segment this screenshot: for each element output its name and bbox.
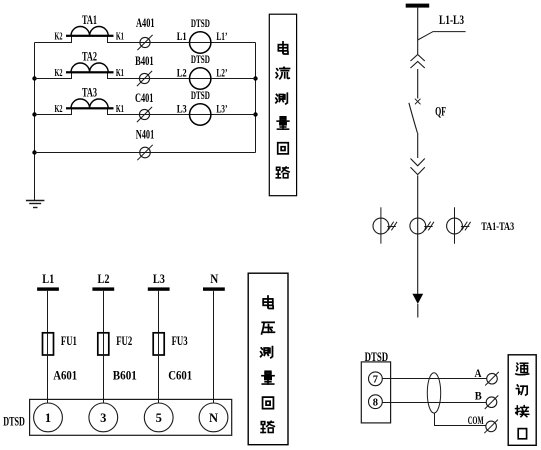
svg-text:1: 1 (45, 411, 51, 425)
wire COM (435, 413, 486, 425)
label 通 (comm box) (516, 363, 529, 375)
label 测 (voltage box) (261, 347, 273, 358)
meter DTSD phase L1 (190, 32, 211, 53)
svg-text:N: N (209, 411, 218, 425)
wire neutral row (35, 152, 256, 154)
label 路 (current box) (276, 167, 289, 178)
label 回 (current box) (278, 143, 289, 154)
svg-text:DTSD: DTSD (191, 88, 210, 102)
terminal A401 (137, 35, 152, 50)
svg-text:DTSD: DTSD (365, 350, 389, 364)
svg-text:N: N (210, 271, 219, 286)
wire through fuse FU1 (47, 333, 49, 403)
meter terminal 3 (89, 403, 118, 432)
disconnect plug lower (411, 159, 425, 175)
meter terminal 7 (369, 372, 383, 386)
svg-text:L2: L2 (98, 271, 110, 286)
svg-text:B401: B401 (135, 53, 154, 68)
svg-text:DTSD: DTSD (191, 52, 210, 66)
node row3 left (32, 112, 36, 116)
label 测 (current box) (276, 93, 287, 104)
svg-text:3: 3 (100, 411, 106, 425)
svg-text:K1: K1 (116, 30, 124, 42)
svg-text:COM: COM (468, 413, 484, 427)
current transformer TA1 (single line) (373, 207, 397, 243)
terminal A (485, 372, 499, 386)
label 量 (current box) (277, 117, 289, 129)
label 接 (comm box) (516, 406, 529, 417)
busbar L1-L3 (406, 4, 430, 8)
meter DTSD phase L3 (190, 104, 211, 125)
svg-text:K2: K2 (55, 103, 63, 115)
current transformer TA1 (66, 26, 114, 36)
fuse FU2 (98, 333, 109, 355)
svg-text:K2: K2 (55, 67, 63, 79)
wire chevrons to arrow (417, 176, 419, 294)
svg-text:A601: A601 (53, 369, 77, 383)
ground (26, 201, 45, 208)
meter terminal 5 (144, 403, 173, 432)
wire A (382, 378, 487, 380)
node N row left (32, 150, 36, 154)
box voltage-measurement-loop label (248, 273, 288, 445)
wire phase A drop (47, 291, 49, 333)
svg-text:C601: C601 (168, 369, 192, 383)
wire right vertical (255, 43, 257, 153)
svg-text:L2: L2 (177, 68, 187, 80)
terminal N401 (137, 145, 152, 160)
svg-text:L3: L3 (177, 104, 187, 116)
svg-text:FU1: FU1 (61, 334, 77, 348)
svg-text:TA1: TA1 (82, 12, 97, 27)
svg-text:L3: L3 (153, 271, 165, 286)
label 路 (voltage box) (261, 421, 274, 432)
terminal B401 (137, 71, 152, 86)
svg-text:A: A (475, 366, 482, 380)
disconnect plug upper (411, 55, 425, 69)
wire phase C drop (158, 291, 160, 333)
svg-text:TA3: TA3 (82, 85, 97, 100)
label 回 (voltage box) (263, 397, 274, 409)
terminal C401 (137, 107, 152, 122)
svg-text:L2’: L2’ (216, 68, 227, 80)
label 电 (voltage box) (263, 296, 273, 308)
svg-text:TA2: TA2 (82, 49, 97, 64)
node row2 left (32, 76, 36, 80)
busbar L3 (voltage) (148, 287, 170, 290)
svg-text:L3’: L3’ (216, 104, 227, 116)
box comm-interface label (508, 355, 536, 446)
terminal B (485, 395, 499, 409)
svg-text:DTSD: DTSD (3, 413, 25, 428)
label 电 (current box) (278, 42, 288, 54)
wire below arrow (417, 304, 419, 318)
wire row2 (35, 72, 256, 78)
svg-text:C401: C401 (135, 90, 154, 105)
svg-text:K2: K2 (55, 30, 63, 42)
svg-text:QF: QF (435, 104, 446, 119)
box current-measurement-loop label (269, 14, 296, 196)
svg-text:A401: A401 (136, 15, 155, 30)
wire breaker to lower chevrons (417, 133, 419, 158)
wire through fuse FU2 (103, 333, 105, 403)
svg-text:B: B (475, 389, 482, 403)
current transformer TA2 (single line) (410, 218, 434, 234)
svg-text:K1: K1 (116, 67, 124, 79)
busbar L2 (voltage) (92, 287, 114, 290)
wire phase B drop (103, 291, 105, 333)
svg-text:TA1-TA3: TA1-TA3 (481, 221, 514, 233)
current transformer TA3 (66, 99, 114, 109)
label 口 (comm box) (518, 429, 526, 439)
svg-text:K1: K1 (116, 103, 124, 115)
svg-text:5: 5 (156, 411, 162, 425)
busbar L1 (voltage) (37, 287, 59, 290)
label 讯 (comm box) (516, 385, 527, 395)
meter box DTSD (comm) (361, 362, 390, 423)
wire row3 (35, 108, 256, 114)
meter terminal N (199, 403, 228, 432)
meter terminal 8 (369, 395, 383, 409)
node row2 right (253, 76, 257, 80)
meter DTSD phase L2 (190, 68, 211, 89)
label 量 (voltage box) (262, 371, 274, 384)
current transformer TA2 (66, 63, 114, 73)
label 流 (current box) (276, 67, 289, 78)
wire neutral drop (213, 291, 215, 403)
wire through fuse FU3 (158, 333, 160, 403)
busbar N (voltage) (203, 287, 225, 290)
twisted pair shield (427, 373, 440, 413)
label 压 (voltage box) (262, 322, 275, 334)
svg-text:DTSD: DTSD (191, 16, 210, 30)
fuse FU3 (153, 333, 164, 355)
circuit breaker QF (409, 99, 421, 133)
svg-text:L1: L1 (42, 271, 54, 286)
svg-text:B601: B601 (113, 369, 137, 383)
wire left vertical bus (34, 43, 36, 201)
svg-text:FU3: FU3 (172, 334, 188, 348)
terminal COM (484, 420, 498, 434)
node row3 right (253, 112, 257, 116)
svg-text:7: 7 (373, 375, 378, 386)
wire row1 (35, 36, 256, 43)
wire B (382, 402, 486, 404)
svg-text:N401: N401 (136, 126, 155, 141)
wire chevrons to breaker (417, 69, 419, 99)
arrow to load (412, 294, 423, 304)
fuse FU1 (43, 333, 54, 355)
svg-text:L1-L3: L1-L3 (439, 12, 464, 27)
meter terminal box DTSD (voltage) (30, 399, 232, 435)
svg-text:8: 8 (373, 398, 378, 409)
svg-text:L1’: L1’ (216, 31, 227, 43)
wire from busbar (417, 8, 419, 54)
svg-text:FU2: FU2 (116, 334, 132, 348)
meter terminal 1 (34, 403, 63, 432)
current transformer TA3 (single line) (447, 207, 471, 243)
svg-text:L1: L1 (177, 31, 187, 43)
label L1-L3 with leader (418, 12, 466, 40)
